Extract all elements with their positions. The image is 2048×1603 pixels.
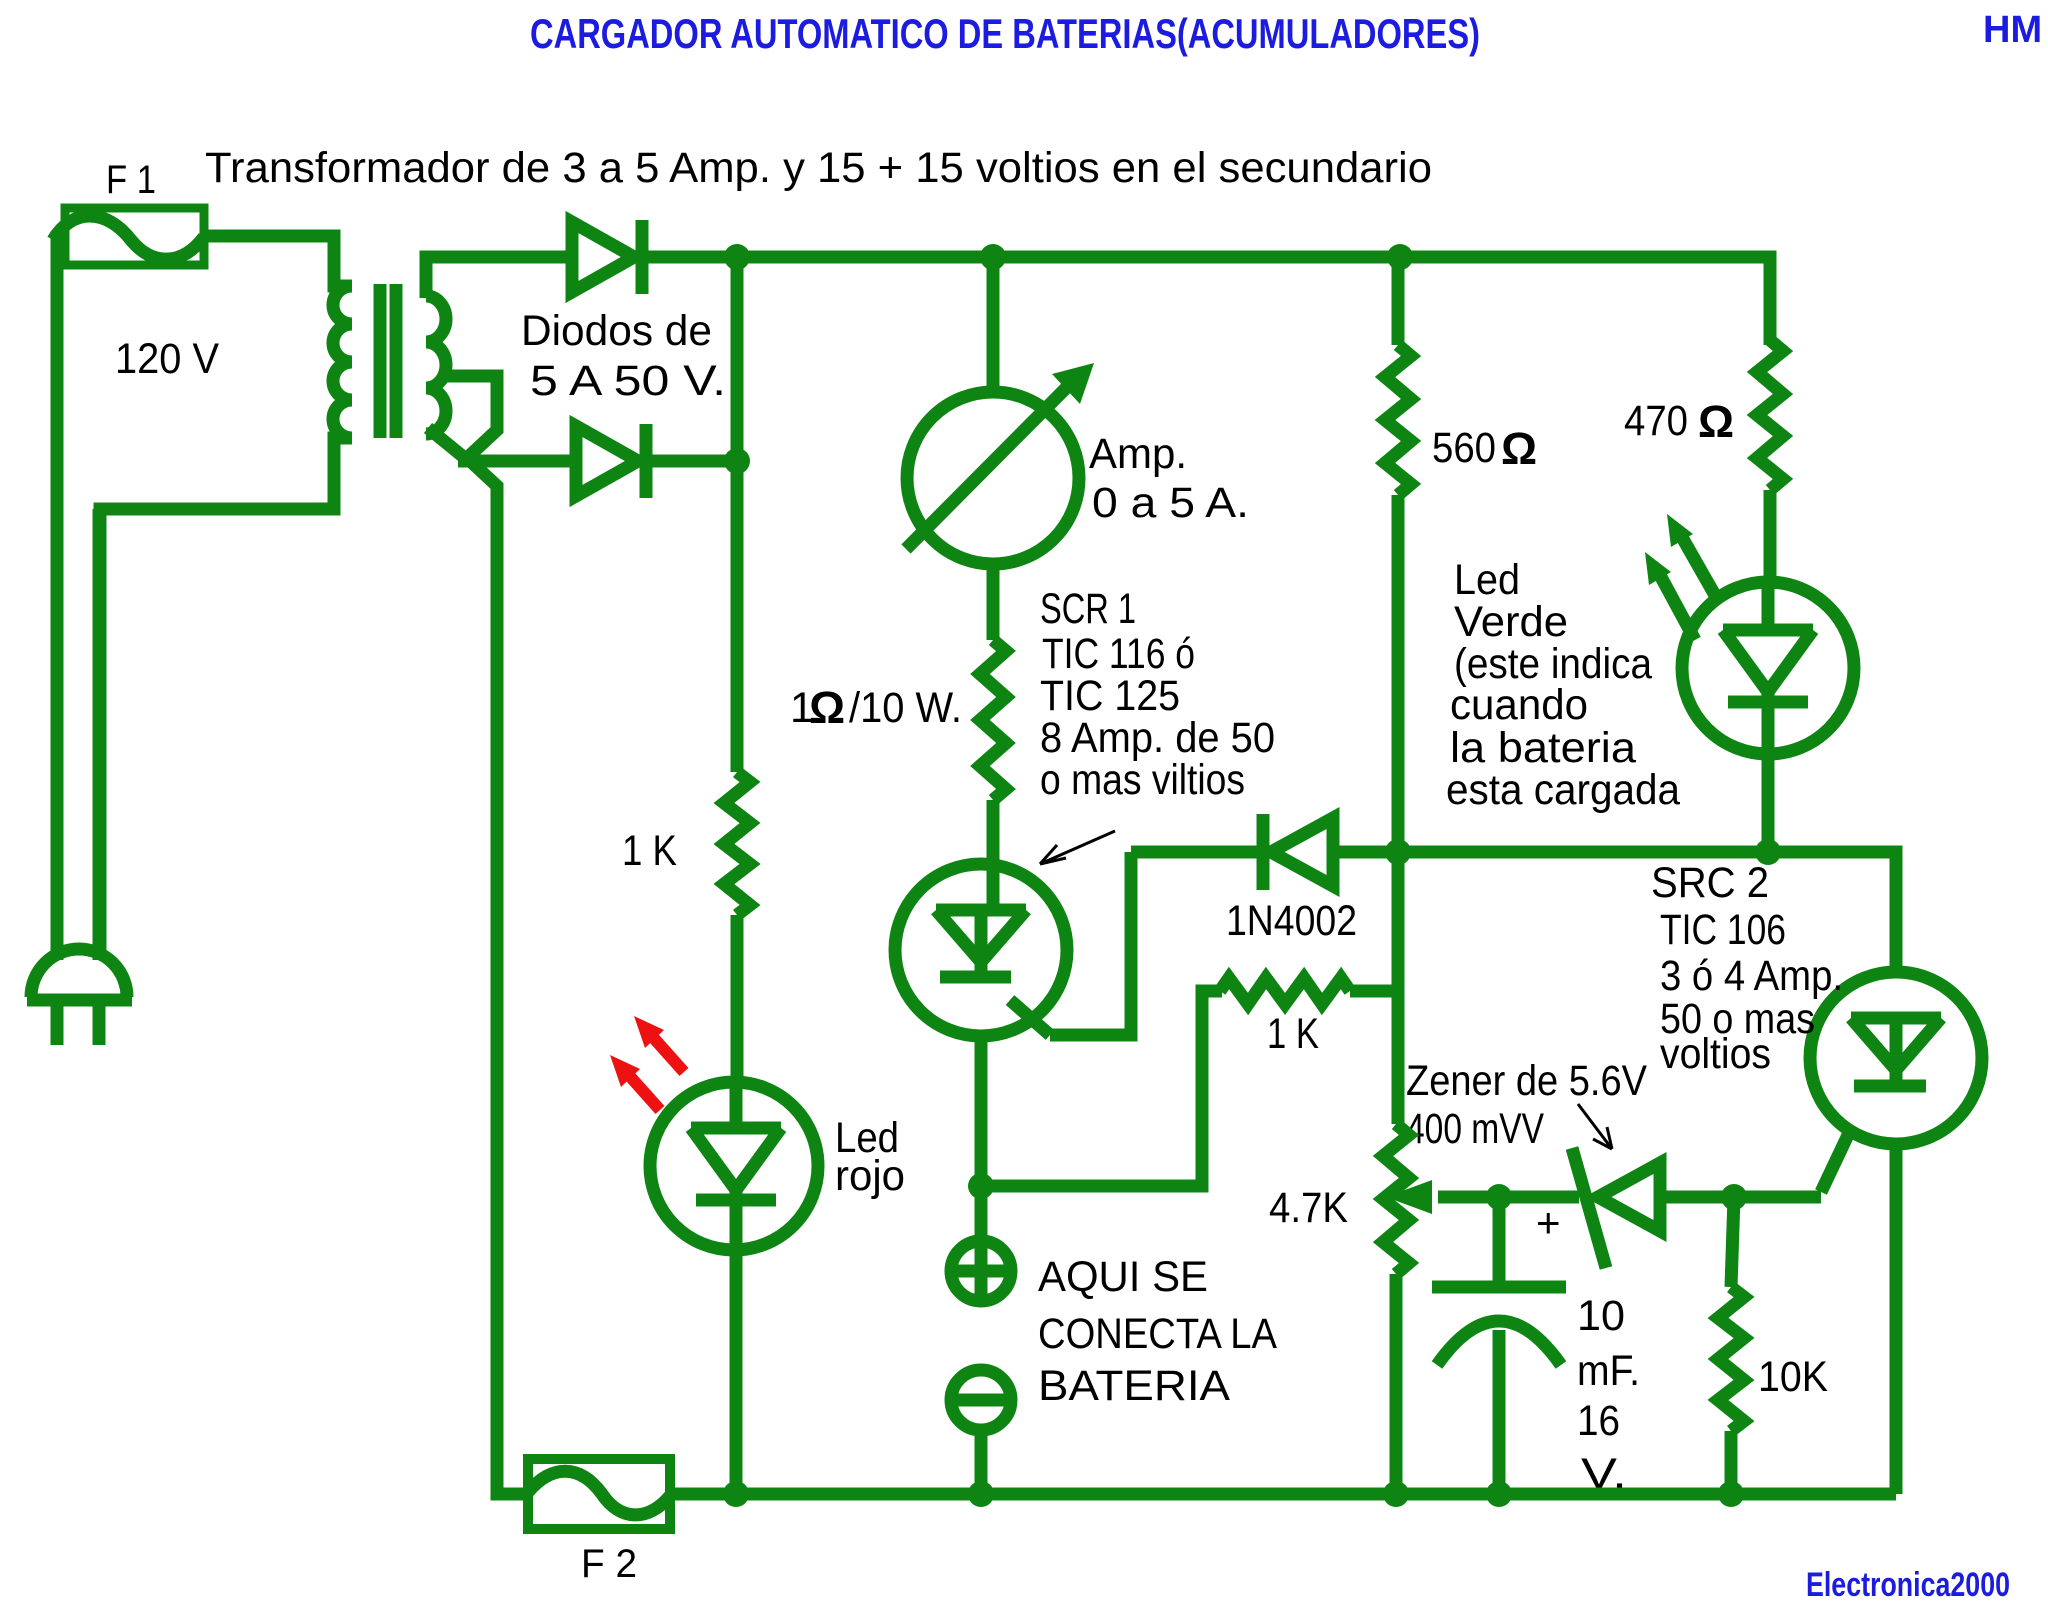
wire bottom bus [670, 1488, 1896, 1501]
svg-text:16: 16 [1577, 1397, 1620, 1445]
svg-text:TIC 125: TIC 125 [1040, 672, 1180, 720]
svg-text:4.7K: 4.7K [1269, 1184, 1348, 1232]
potentiometer wiper arrow [1386, 1180, 1432, 1214]
svg-text:Zener de 5.6V: Zener de 5.6V [1406, 1057, 1647, 1105]
node junction bus 10K [1718, 1481, 1744, 1507]
wire top rail [642, 257, 1770, 345]
svg-text:TIC 116 ó: TIC 116 ó [1042, 630, 1195, 678]
wire 560 column [1392, 257, 1405, 1124]
resistor 1K feedback [1220, 978, 1350, 1004]
wire gate line to diode D3 [1131, 846, 1259, 859]
svg-text:Amp.: Amp. [1089, 430, 1187, 478]
wire SCR1 cathode down [975, 1036, 988, 1186]
svg-text:cuando: cuando [1450, 681, 1588, 729]
wire D3 to 560 junction [1333, 846, 1398, 859]
svg-text:SRC 2: SRC 2 [1651, 859, 1769, 907]
svg-text:Transformador de 3 a 5 Amp. y: Transformador de 3 a 5 Amp. y 15 + 15 vo… [205, 144, 1432, 192]
wire ammeter to 1 ohm resistor [987, 564, 1000, 640]
wire primary bottom to plug [100, 438, 352, 960]
wire SCR2 cathode down [1890, 1144, 1903, 1494]
wire zener rail [1438, 1191, 1821, 1204]
resistor 1 ohm 10W [980, 640, 1006, 800]
wire primary right lead [93, 509, 106, 960]
fuse F1 [53, 208, 204, 265]
capacitor C1 10mF [1432, 1197, 1566, 1494]
wire SCR1 gate loop [1050, 852, 1131, 1035]
svg-text:SCR 1: SCR 1 [1040, 585, 1136, 633]
wire red LED branch [731, 461, 744, 772]
LED green emission arrows [1645, 514, 1720, 640]
svg-text:Diodos de: Diodos de [521, 307, 712, 355]
pointer arrow to zener [1578, 1104, 1612, 1149]
svg-text:5 A 50 V.: 5 A 50 V. [530, 357, 726, 405]
svg-text:rojo: rojo [835, 1152, 905, 1200]
node junction D2 output [724, 448, 750, 474]
wire secondary bottom to D2 [428, 428, 576, 461]
svg-text:470: 470 [1624, 397, 1688, 445]
wire 10K column [1731, 1197, 1734, 1494]
svg-text:1N4002: 1N4002 [1226, 897, 1357, 945]
svg-text:BATERIA: BATERIA [1038, 1362, 1230, 1410]
node junction bus capacitor [1486, 1481, 1512, 1507]
wire 4.7K to bus [1390, 1274, 1403, 1494]
svg-text:F 2: F 2 [581, 1542, 637, 1586]
wire D2 to junction [646, 455, 737, 468]
svg-text:1 K: 1 K [622, 827, 677, 875]
wire LED green to gate rail [1762, 754, 1775, 852]
svg-text:mF.: mF. [1577, 1347, 1640, 1395]
svg-text:HM: HM [1983, 9, 2042, 51]
pointer arrow to SCR1 [1040, 831, 1115, 864]
svg-text:/10 W.: /10 W. [849, 684, 962, 732]
svg-text:Ω: Ω [809, 682, 845, 733]
wire cathode to 1K feedback [981, 991, 1222, 1186]
svg-text:la bateria: la bateria [1450, 724, 1636, 772]
transformer T1 primary winding [333, 286, 352, 438]
svg-text:3 ó 4 Amp.: 3 ó 4 Amp. [1660, 952, 1843, 1000]
fuse F2 [528, 1459, 670, 1529]
node junction zener capacitor [1486, 1184, 1512, 1210]
svg-text:560: 560 [1432, 424, 1496, 472]
node junction SCR1 cathode [968, 1173, 994, 1199]
wire F1 left to plug [51, 236, 64, 960]
node junction top rail to 560 ohm [1387, 244, 1413, 270]
AC plug [27, 949, 132, 1045]
svg-text:esta cargada: esta cargada [1446, 766, 1680, 814]
node junction bus battery [968, 1481, 994, 1507]
resistor 470 ohm [1757, 340, 1783, 490]
transformer T1 core [380, 284, 396, 438]
svg-text:8 Amp. de 50: 8 Amp. de 50 [1040, 714, 1275, 762]
wire center tap down to F2 [446, 376, 528, 1494]
svg-text:1 K: 1 K [1267, 1010, 1319, 1058]
wire gate rail to SCR2 anode [1398, 852, 1896, 972]
LED red D6 [650, 1082, 818, 1250]
LED green D5 [1682, 582, 1854, 754]
wire LED red to bus [730, 1250, 743, 1494]
svg-text:120 V: 120 V [115, 335, 219, 383]
ammeter M1 [906, 363, 1094, 564]
svg-text:Led: Led [1454, 556, 1520, 604]
SCR2 thyristor [1810, 972, 1982, 1192]
wire F1 right to primary top [204, 236, 352, 286]
svg-text:o mas viltios: o mas viltios [1040, 756, 1245, 804]
svg-text:0 a 5 A.: 0 a 5 A. [1092, 479, 1249, 527]
resistor 560 ohm [1385, 345, 1411, 495]
node junction gate line 560 [1385, 839, 1411, 865]
svg-text:voltios: voltios [1660, 1030, 1771, 1078]
svg-text:Ω: Ω [1501, 423, 1537, 474]
svg-text:Electronica2000: Electronica2000 [1806, 1566, 2010, 1603]
resistor 4.7K potentiometer [1383, 1124, 1409, 1274]
wire 1K to 560 column [1350, 985, 1398, 998]
transformer T1 secondary winding [426, 296, 446, 434]
svg-text:+: + [1536, 1199, 1561, 1246]
wire secondary top to D1 [426, 257, 574, 298]
battery positive terminal [951, 1241, 1011, 1301]
node junction zener 10K [1721, 1184, 1747, 1210]
wire battery positive feed [975, 1186, 988, 1301]
zener diode Z1 [1572, 1148, 1660, 1268]
node junction LED green gate rail [1755, 839, 1781, 865]
battery negative terminal [951, 1370, 1011, 1430]
node junction top rail to D2 branch [724, 244, 750, 270]
svg-text:400 mVV: 400 mVV [1406, 1105, 1544, 1153]
svg-text:10K: 10K [1758, 1353, 1828, 1401]
node junction bus 4.7K [1383, 1481, 1409, 1507]
SCR1 thyristor [895, 864, 1067, 1036]
svg-text:Verde: Verde [1454, 598, 1568, 646]
svg-text:10: 10 [1577, 1292, 1625, 1340]
svg-text:F 1: F 1 [106, 158, 156, 202]
LED red emission arrows [610, 1016, 684, 1110]
svg-text:CARGADOR AUTOMATICO DE BATERIA: CARGADOR AUTOMATICO DE BATERIAS(ACUMULAD… [530, 10, 1480, 57]
wire 1K to LED red [731, 915, 744, 1084]
wire junction column top [731, 257, 744, 461]
wire 470 to LED green [1764, 490, 1777, 584]
diode D1 top rectifier [572, 220, 642, 294]
diode D2 bottom rectifier [576, 424, 646, 498]
node junction bus LED red [723, 1481, 749, 1507]
wire 1 ohm to SCR1 [987, 800, 1000, 910]
diode D3 1N4002 [1263, 814, 1333, 890]
wire ammeter feed [987, 257, 1000, 392]
svg-text:CONECTA LA: CONECTA LA [1038, 1310, 1277, 1358]
svg-text:AQUI SE: AQUI SE [1038, 1253, 1208, 1301]
resistor 10K [1718, 1287, 1744, 1431]
node junction top rail to ammeter [980, 244, 1006, 270]
svg-text:Ω: Ω [1698, 396, 1734, 447]
svg-text:TIC 106: TIC 106 [1660, 906, 1786, 954]
wire battery negative to bus [975, 1430, 988, 1494]
resistor 1K red branch [724, 772, 750, 915]
